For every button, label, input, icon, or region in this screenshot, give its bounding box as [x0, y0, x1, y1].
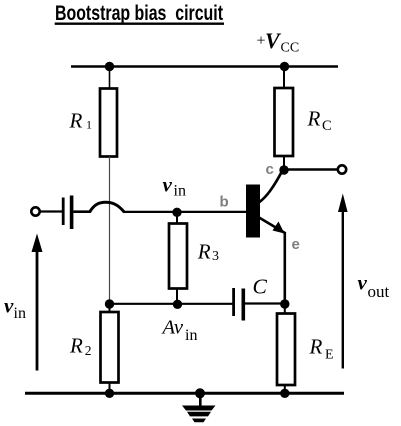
output terminal circle — [338, 165, 346, 173]
bootstrap capacitor C left plate — [232, 288, 235, 316]
svg-text:e: e — [292, 236, 300, 253]
svg-text:3: 3 — [212, 249, 219, 264]
input coupling capacitor right plate — [70, 196, 74, 230]
resistor R3 — [169, 224, 187, 289]
svg-text:Av: Av — [161, 317, 184, 339]
wire: rail to RC top — [283, 67, 285, 90]
vout arrow — [338, 194, 348, 369]
wire: capacitor C to emitter node — [245, 302, 285, 304]
svg-text:in: in — [14, 305, 26, 322]
resistor R2 — [101, 312, 119, 383]
label vin (input) — [4, 294, 26, 323]
label R3 — [197, 240, 219, 265]
wire: thin link R1 bottom to R2 node — [109, 157, 111, 305]
transistor Q1 emitter lead — [259, 218, 285, 234]
label vout — [358, 271, 390, 302]
node Avin junction dot — [173, 300, 182, 309]
input terminal circle — [31, 207, 39, 215]
label R2 — [69, 334, 92, 358]
svg-text:V: V — [265, 28, 282, 53]
transistor Q1 emitter arrowhead — [273, 222, 285, 234]
resistor RE — [277, 314, 295, 386]
junction dot at ground — [195, 388, 205, 398]
wire: ground rail — [25, 392, 344, 395]
wire: node c to output terminal — [284, 168, 337, 171]
svg-text:2: 2 — [85, 343, 92, 358]
svg-text:R: R — [309, 335, 323, 359]
junction dot emitter/RE node — [280, 299, 289, 308]
svg-text:v: v — [4, 294, 14, 318]
svg-text:R: R — [69, 334, 83, 358]
bootstrap capacitor C right plate — [242, 289, 246, 321]
svg-text:Bootstrap bias circuit: Bootstrap bias circuit — [55, 1, 223, 25]
svg-text:out: out — [368, 282, 390, 301]
wire: R2 bottom to ground rail — [109, 383, 111, 394]
title "Bootstrap bias circuit" — [55, 1, 224, 25]
wire: Avin rail (R2 node to capacitor C) — [110, 303, 233, 305]
wire: rail to R1 top — [109, 67, 111, 90]
resistor RC — [275, 88, 294, 156]
wire: +VCC top supply rail — [71, 65, 338, 68]
svg-text:v: v — [358, 271, 368, 295]
wire: RE node to RE top — [284, 304, 286, 314]
node c junction dot — [279, 165, 288, 174]
svg-text:R: R — [197, 240, 211, 264]
transistor Q1 collector lead — [260, 169, 284, 203]
junction dot on rail above RC — [280, 62, 289, 71]
svg-text:R: R — [307, 107, 321, 131]
svg-text:in: in — [185, 327, 197, 344]
wire: RC bottom to collector node c — [283, 156, 285, 170]
transistor Q1 base bar — [246, 185, 260, 238]
label RC — [307, 107, 332, 135]
wire: R3 bottom to Avin node — [176, 288, 178, 305]
label RE — [309, 335, 334, 363]
wire: base node to transistor base — [177, 211, 247, 213]
wire: capacitor to hop — [74, 210, 92, 213]
input coupling capacitor left plate — [62, 198, 65, 226]
wire: emitter down to RE node — [283, 232, 286, 304]
node vin junction dot (base node) — [172, 208, 181, 217]
junction dot R2 top node — [105, 299, 114, 308]
svg-text:R: R — [69, 109, 83, 133]
svg-text:v: v — [163, 173, 173, 197]
wire: base node down to R3 — [176, 212, 178, 224]
wire: hop to base node — [124, 211, 177, 213]
svg-text:C: C — [322, 118, 332, 134]
wire hop over R1-R2 link — [90, 202, 125, 212]
svg-text:C: C — [253, 275, 268, 299]
label Avin — [161, 317, 198, 345]
wire: input terminal to coupling capacitor — [41, 210, 63, 212]
junction dot R2 bottom — [105, 389, 114, 398]
label +VCC — [257, 28, 300, 56]
vin source arrow — [32, 234, 43, 371]
svg-text:1: 1 — [86, 118, 92, 132]
ground symbol — [182, 393, 216, 422]
junction dot RE bottom — [280, 389, 289, 398]
label vin (base node) — [163, 173, 186, 200]
svg-text:CC: CC — [281, 41, 300, 56]
svg-text:E: E — [325, 348, 334, 363]
label R1 — [69, 109, 93, 133]
svg-text:in: in — [174, 183, 186, 200]
wire: RE bottom to ground rail — [284, 385, 286, 394]
wire: R2 node to R2 top — [109, 304, 111, 313]
junction dot on rail above R1 — [105, 62, 114, 71]
svg-text:c: c — [266, 161, 274, 178]
resistor R1 — [100, 89, 117, 157]
svg-text:b: b — [220, 194, 229, 211]
